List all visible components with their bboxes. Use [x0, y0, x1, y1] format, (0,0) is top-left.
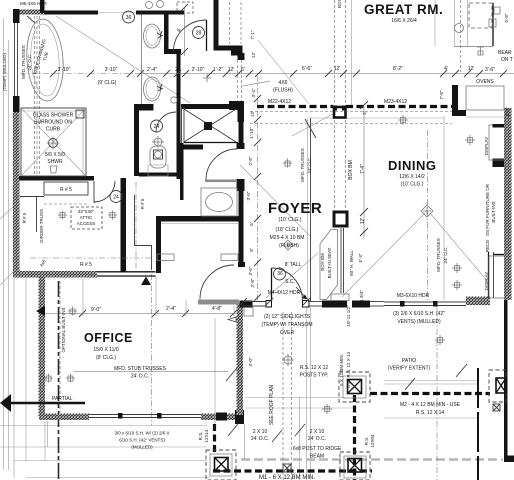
svg-text:R.S.: R.S.: [364, 437, 369, 446]
svg-text:(9' CLG.): (9' CLG.): [96, 355, 116, 361]
kitchen fixture 2: [452, 263, 462, 273]
patio east wall line: [504, 300, 508, 457]
ext line to P3: [214, 318, 216, 424]
faucet 1: [157, 31, 163, 38]
door 28 dim line: [184, 8, 186, 56]
svg-text:(18' CLG.): (18' CLG.): [276, 227, 299, 233]
tub door jamb lower: [237, 179, 245, 191]
svg-text:MFD. STUB TRUSSES: MFD. STUB TRUSSES: [114, 366, 167, 372]
svg-text:PARTIAL: PARTIAL: [52, 396, 73, 402]
beam M23 dashed: [346, 105, 452, 108]
ceiling vault diagonal lower left 2: [0, 271, 14, 285]
svg-text:VENTS) (MULLED): VENTS) (MULLED): [397, 319, 441, 325]
box beam dashed pair great room: [334, 0, 336, 212]
wall right exterior hatched: [504, 108, 512, 300]
wall top left horizontal hatched: [13, 10, 44, 15]
kitchen corner wall vertical: [452, 85, 458, 112]
front wall hatched seat right: [352, 301, 370, 308]
dining tray diagonal right: [430, 213, 488, 282]
patio line right mid: [384, 417, 477, 419]
office fixture 1: [44, 374, 53, 383]
beam M2 dashed right: [370, 392, 490, 395]
small x marker beam M1: [283, 464, 291, 472]
patio post P1: [348, 380, 362, 394]
svg-text:OPTIONAL BUILT-INS: OPTIONAL BUILT-INS: [61, 307, 66, 352]
fireplace gas valve: [494, 7, 500, 14]
svg-text:7'-8": 7'-8": [439, 90, 444, 99]
attic access dashed box: [71, 207, 102, 229]
leader patio tick 4: [405, 378, 415, 390]
small x marker patio right: [493, 404, 500, 411]
svg-text:(2) 12" SIDELIGHTS: (2) 12" SIDELIGHTS: [264, 314, 311, 320]
svg-text:BEAM: BEAM: [310, 454, 324, 460]
bath right dim column ticks: [254, 95, 261, 301]
wall face ext lines office SW: [44, 421, 46, 461]
svg-text:USE R.S. 12 X 14: USE R.S. 12 X 14: [346, 352, 351, 389]
svg-text:ACCESS: ACCESS: [77, 221, 96, 226]
svg-text:R # 5: R # 5: [140, 198, 145, 209]
svg-text:M1 - 6 X 12 BM MIN.: M1 - 6 X 12 BM MIN.: [259, 475, 315, 480]
patio centerline vertical: [436, 306, 438, 480]
svg-text:2'-4": 2'-4": [166, 306, 176, 312]
svg-text:PATIO: PATIO: [402, 358, 416, 364]
window arrow marker: [228, 317, 236, 322]
wall vanity east vertical: [164, 11, 169, 52]
closet wall L below shower: [20, 197, 44, 233]
roof overhang line left A: [3, 18, 5, 470]
svg-text:6/10 S.H. (42" VENTS): 6/10 S.H. (42" VENTS): [119, 438, 165, 443]
svg-text:9'-0": 9'-0": [91, 307, 101, 313]
svg-text:R # 5: R # 5: [80, 262, 92, 268]
kitchen display niche box: [489, 125, 505, 160]
office window centerline: [151, 274, 153, 425]
svg-text:(10' CLG.): (10' CLG.): [279, 217, 302, 223]
ceiling vault diagonal master bath: [56, 16, 190, 103]
kitchen display niche black bar: [493, 159, 506, 168]
dining fixture top: [455, 24, 464, 33]
svg-text:11 3/4": 11 3/4": [359, 290, 364, 304]
patio wall face line: [244, 424, 246, 459]
patio line vertical dashed b: [291, 312, 293, 480]
svg-text:MFD. TRUSSES: MFD. TRUSSES: [21, 45, 26, 78]
wall bath2 jog step: [231, 50, 243, 56]
patio slab edge right upper: [384, 380, 477, 382]
roof line bottom left 3: [14, 460, 207, 462]
svg-text:M5-4X6 HDR: M5-4X6 HDR: [20, 1, 48, 6]
svg-text:12X14: 12X14: [204, 429, 209, 443]
post at foyer corner black: [334, 107, 346, 118]
svg-text:M2 - 4 X 12 BM MIN - USE: M2 - 4 X 12 BM MIN - USE: [400, 402, 461, 408]
wall bath2 west vertical: [177, 54, 181, 179]
svg-text:MFD. TRUSSES: MFD. TRUSSES: [300, 148, 305, 181]
svg-text:OFFICE: OFFICE: [84, 331, 133, 345]
svg-text:24: 24: [113, 195, 119, 201]
beam vertical left dashed: [213, 424, 216, 455]
svg-text:BUILT-INS: BUILT-INS: [491, 201, 496, 222]
svg-text:24' O.C.: 24' O.C.: [251, 436, 269, 442]
wall tub west: [180, 143, 184, 200]
svg-text:SURROUND ON: SURROUND ON: [34, 120, 72, 126]
svg-text:10'-11 1/2": 10'-11 1/2": [346, 305, 351, 327]
dining window sill lines: [384, 301, 466, 303]
patio line below foyer 2: [245, 407, 354, 409]
wall bath2 top jog horizontal: [214, 46, 243, 51]
svg-text:R # 5: R # 5: [60, 187, 72, 193]
svg-text:CURB: CURB: [46, 127, 61, 133]
section line vertical left: [58, 281, 60, 480]
svg-text:6': 6': [249, 222, 254, 226]
dining east wall line: [443, 116, 445, 300]
bath dim centerline: [257, 76, 259, 302]
wall top horizontal A: [44, 11, 98, 15]
shower2 corner block NE: [229, 101, 244, 110]
patio line vertical dashed a: [282, 312, 284, 480]
svg-text:2'-4": 2'-4": [147, 67, 157, 73]
svg-text:28: 28: [196, 31, 202, 37]
entry door leaf vertical: [271, 268, 273, 301]
main dimension line y73: [20, 73, 135, 75]
wc pedestal: [148, 165, 168, 176]
svg-text:7'-1": 7'-1": [250, 30, 255, 39]
svg-text:8': 8': [249, 248, 254, 252]
svg-text:1'-10": 1'-10": [249, 127, 254, 139]
svg-text:M4-4X12 HDR: M4-4X12 HDR: [268, 290, 301, 296]
tub2 rect: [201, 188, 237, 216]
fireplace bottom line: [454, 46, 493, 48]
wall bath2 east above door: [239, 120, 244, 149]
svg-text:R.S. 12 X 12: R.S. 12 X 12: [300, 365, 329, 371]
office wall fixture: [68, 307, 77, 316]
svg-text:15/0 X 11/0: 15/0 X 11/0: [93, 347, 118, 353]
svg-text:DISPLAY: DISPLAY: [484, 137, 489, 156]
dining window mullion 1: [400, 301, 405, 307]
dining tray diagonal left: [342, 213, 425, 297]
shower2 east step: [238, 108, 245, 122]
vanity counter line: [141, 15, 143, 105]
dining north line: [311, 117, 444, 119]
section line vertical right: [477, 368, 479, 480]
wall office east hatched: [237, 303, 244, 415]
front wall hatched SE corner: [466, 297, 490, 306]
shower2 west wall: [181, 107, 183, 143]
svg-text:3'-10": 3'-10": [105, 67, 118, 73]
office truss leader: [74, 371, 228, 373]
circle 28: [193, 27, 205, 39]
svg-text:4': 4': [444, 66, 448, 72]
foyer dim vertical line: [363, 106, 365, 238]
svg-text:60" H. WALL: 60" H. WALL: [349, 250, 354, 276]
svg-text:BEAR: BEAR: [498, 50, 512, 56]
svg-text:(3) 2/6 X 6/10 S.H. (42": (3) 2/6 X 6/10 S.H. (42": [393, 311, 445, 317]
stub truss tick right: [456, 364, 467, 377]
svg-text:3'-6": 3'-6": [485, 67, 495, 73]
svg-text:3'-6": 3'-6": [248, 266, 253, 275]
truss leader top left: [27, 16, 35, 23]
dim extension lines office: [155, 276, 157, 316]
svg-text:M25-4 X 10 BM: M25-4 X 10 BM: [270, 235, 305, 241]
kitchen fixture 3: [452, 280, 462, 290]
office door leaf: [198, 300, 239, 305]
svg-text:2': 2': [362, 111, 367, 115]
svg-text:6'-6": 6'-6": [302, 66, 312, 72]
master entry door leaf (28): [206, 20, 208, 51]
office door arc: [200, 265, 234, 299]
svg-text:ATTIC: ATTIC: [80, 215, 93, 220]
ceiling light hall 1: [58, 211, 67, 220]
roof line below office wall: [0, 425, 207, 427]
built-in seat bump: [331, 294, 349, 301]
svg-text:3'-0": 3'-0": [246, 191, 251, 200]
svg-text:(FLUSH): (FLUSH): [279, 243, 299, 249]
wc toilet tank: [150, 146, 166, 168]
office north wall triangle marker: [141, 277, 151, 286]
office window mullion 1: [118, 413, 123, 419]
svg-text:2'-10": 2'-10": [192, 67, 205, 73]
bath2 door arc: [206, 149, 237, 180]
towel circle 1: [146, 2, 153, 9]
patio line vertical thin: [299, 397, 301, 480]
shower drain: [49, 139, 58, 148]
svg-text:FOYER: FOYER: [268, 200, 322, 217]
wall office south hatched east: [201, 414, 216, 421]
foyer vault diagonal: [240, 165, 310, 236]
sink 1: [144, 24, 161, 48]
svg-text:POSTS TYP.: POSTS TYP.: [300, 373, 329, 379]
svg-text:3'-10": 3'-10": [58, 67, 71, 73]
dining SE wall vertical: [488, 252, 490, 298]
office west marker: [36, 306, 45, 316]
great room vault diagonal: [292, 108, 344, 136]
shower2 top wall: [181, 104, 236, 109]
svg-text:12': 12': [468, 66, 475, 72]
dim ticks foyer front: [240, 298, 310, 305]
office SE corner black: [235, 410, 244, 424]
svg-text:7'-4": 7'-4": [360, 164, 366, 174]
wall top left corner block: [13, 9, 20, 23]
faucet 2: [157, 84, 163, 91]
shower2 drain black: [204, 122, 212, 130]
roof line bottom left 2: [0, 446, 207, 448]
svg-text:2': 2': [175, 67, 179, 73]
fireplace dashed cavity: [469, 3, 492, 28]
fireplace small box: [489, 19, 496, 27]
svg-text:3'-4": 3'-4": [251, 88, 256, 97]
svg-text:(TEMP) W/ TRANSOM: (TEMP) W/ TRANSOM: [261, 322, 312, 328]
svg-text:BOX BM: BOX BM: [348, 160, 354, 179]
patio post P3: [215, 458, 229, 472]
shower2 diagonals: [184, 109, 236, 142]
svg-text:4'-8": 4'-8": [212, 306, 222, 312]
svg-text:2 X 10: 2 X 10: [310, 429, 325, 435]
cased opening line top: [98, 12, 136, 14]
svg-text:32"X30": 32"X30": [78, 209, 95, 214]
svg-text:16/6 X 26/4: 16/6 X 26/4: [391, 18, 417, 24]
roof overhang line left B: [8, 40, 10, 470]
foyer diamond fixture: [283, 240, 293, 250]
svg-text:R # 5: R # 5: [22, 212, 27, 223]
garden tub: [24, 18, 66, 102]
svg-text:6x8 POST TO RIDGE: 6x8 POST TO RIDGE: [293, 446, 342, 452]
svg-text:(TEMP) (MULLED): (TEMP) (MULLED): [2, 52, 7, 91]
svg-text:5'-8": 5'-8": [504, 13, 509, 22]
svg-text:OVENS: OVENS: [476, 79, 494, 85]
hdr leader foyer: [296, 287, 307, 299]
wall office south corner piece: [227, 414, 244, 421]
wall wc south: [139, 173, 179, 177]
shower head: [50, 166, 57, 173]
leader patio left tick 2: [272, 430, 282, 442]
svg-text:(VERIFY EXTENT): (VERIFY EXTENT): [388, 366, 431, 372]
kitchen display top bar: [493, 124, 506, 128]
patio post P1 dashed box: [339, 372, 370, 402]
svg-text:24' O.C.: 24' O.C.: [131, 374, 149, 380]
svg-text:8' TALL: 8' TALL: [285, 262, 302, 268]
patio post P3 dashed box: [206, 450, 236, 480]
leader patio tick 3: [295, 424, 305, 436]
svg-text:ON T: ON T: [501, 57, 513, 63]
towel circle 2: [157, 1, 164, 8]
kitchen counter line: [466, 116, 504, 118]
porch pillar at office door: [240, 301, 253, 308]
patio post P4 dashed box: [489, 370, 506, 402]
beam M22 dashed: [257, 105, 333, 108]
svg-text:24' O.C.: 24' O.C.: [308, 436, 326, 442]
wc toilet flush: [154, 138, 162, 146]
patio post P2: [348, 459, 362, 473]
svg-text:3'-0": 3'-0": [248, 357, 253, 366]
front wall thin run to window: [370, 301, 384, 303]
svg-text:R.S.: R.S.: [198, 432, 203, 441]
svg-text:M23-4X12: M23-4X12: [384, 99, 407, 105]
svg-text:(MULLED): (MULLED): [131, 445, 153, 450]
beam face dashed gray lines: [250, 111, 452, 113]
leader patio left tick 1: [228, 424, 238, 436]
svg-text:SHWR: SHWR: [47, 159, 63, 165]
shelf niche foyer west: [221, 254, 238, 261]
seat back wall lines: [340, 228, 342, 293]
wall office north thin part: [97, 271, 156, 273]
R5 label box: [44, 182, 88, 195]
svg-text:6': 6': [241, 67, 245, 73]
svg-text:(10' CLG.): (10' CLG.): [401, 182, 424, 188]
hall centerline: [135, 182, 137, 268]
header dashed over bath2 opening: [237, 60, 239, 101]
svg-text:5/0 X 5/0: 5/0 X 5/0: [45, 152, 65, 158]
display niche2 box: [489, 256, 505, 298]
kitchen corner wall horizontal: [452, 110, 466, 116]
svg-text:M3-6X10 HDR: M3-6X10 HDR: [397, 293, 430, 299]
svg-text:12': 12': [250, 111, 255, 117]
svg-text:R.S. 12 X 14: R.S. 12 X 14: [416, 410, 445, 416]
wall vanity jog: [164, 49, 181, 54]
svg-text:BOX: BOX: [337, 0, 342, 8]
shower diagonals: [21, 108, 86, 176]
wall below shower2: [183, 145, 203, 150]
vanity fixture small: [171, 97, 177, 103]
office fixture 2: [66, 374, 75, 383]
entry door arc: [272, 268, 303, 301]
front wall run to seat: [308, 301, 322, 303]
patio post P4: [496, 378, 506, 393]
office window mullion 2: [157, 413, 162, 419]
fireplace hearth fixture: [477, 47, 484, 55]
foyer west wall line2: [307, 118, 309, 301]
patio SE corner: [504, 456, 514, 463]
svg-text:2'-8": 2'-8": [250, 278, 255, 287]
wall wc west: [134, 104, 139, 176]
tub door jamb upper: [237, 143, 245, 149]
entry door jamb right: [303, 301, 310, 308]
svg-text:12/6 X 14/2: 12/6 X 14/2: [399, 174, 425, 180]
dining diamond chandelier: [421, 205, 433, 217]
wall top horizontal B: [136, 11, 184, 15]
office dim line: [45, 313, 236, 315]
master entry door arc: [174, 20, 207, 51]
svg-text:(FLUSH): (FLUSH): [273, 88, 293, 94]
wall top stub vertical: [40, 0, 45, 13]
office south black post: [216, 413, 227, 421]
svg-text:12X04: 12X04: [370, 434, 375, 448]
shelf niche office side: [157, 254, 174, 261]
wall office north hatched: [13, 271, 97, 278]
svg-text:36: 36: [126, 15, 132, 21]
linen dashed shelves: [229, 2, 231, 44]
partial section cut line: [8, 402, 85, 404]
wall foyer west: [239, 182, 244, 265]
svg-text:5'-4": 5'-4": [358, 253, 363, 262]
circle 24 wc: [151, 120, 163, 132]
svg-text:12': 12': [228, 67, 235, 73]
svg-text:24: 24: [154, 124, 160, 130]
wall bath2 south stub: [156, 216, 161, 273]
shower2 bottom edge: [184, 142, 238, 144]
svg-text:DINING: DINING: [388, 158, 437, 173]
svg-text:GREAT RM.: GREAT RM.: [364, 2, 443, 17]
dashed shelf box top: [177, 2, 193, 13]
small x marker foyer diamond: [322, 404, 332, 414]
beam vertical mid dashed: [353, 395, 356, 480]
svg-text:12': 12': [360, 218, 366, 225]
flush leader great room: [243, 81, 270, 86]
hall door arc (24 lower): [94, 181, 115, 202]
svg-text:RECE: RECE: [485, 240, 490, 253]
svg-text:3/0 x 6/10 S.H. W/ (2) 2/6 X: 3/0 x 6/10 S.H. W/ (2) 2/6 X: [114, 431, 169, 436]
circle 24 hall: [110, 191, 122, 203]
wall left exterior hatched: [13, 112, 20, 272]
bath2 south face lines: [161, 223, 238, 225]
svg-text:12': 12': [251, 52, 256, 58]
great room vault diagonal 2: [258, 40, 309, 104]
svg-text:BOX BM: BOX BM: [320, 253, 325, 271]
roof line office left: [13, 278, 15, 478]
svg-text:SEE ROOF PLAN: SEE ROOF PLAN: [269, 384, 275, 425]
front wall hatched seat left: [322, 301, 347, 308]
wall office south hatched west: [39, 414, 89, 421]
beam M1 dashed bottom: [213, 469, 372, 472]
svg-text:BUILT-IN SEAT: BUILT-IN SEAT: [327, 247, 332, 278]
tub2 inner oval: [206, 193, 233, 212]
ceiling vault diagonal lower left: [0, 206, 14, 219]
box beam post foyer: [334, 212, 347, 226]
svg-text:4': 4': [177, 28, 183, 32]
svg-text:GIRDER TRUSS: GIRDER TRUSS: [39, 209, 44, 243]
wc toilet seat: [154, 150, 163, 159]
entry door jamb left: [266, 301, 272, 308]
shower corner mark: [76, 110, 84, 118]
dim ticks y73: [50, 70, 507, 77]
sink 2: [144, 77, 161, 101]
svg-text:2'-8": 2'-8": [248, 156, 253, 165]
